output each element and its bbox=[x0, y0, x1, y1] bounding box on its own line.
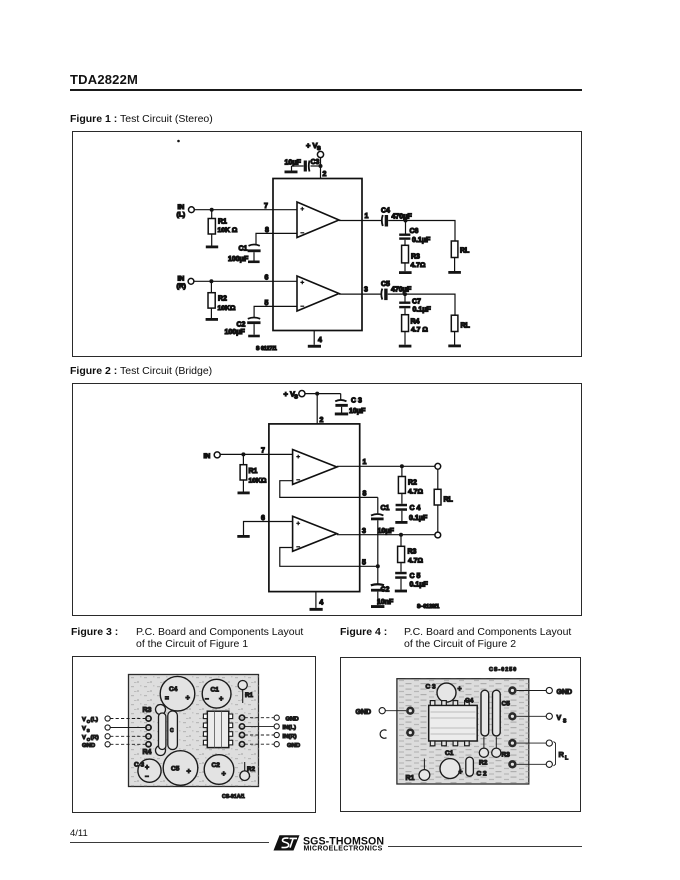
op-amp A2 bbox=[293, 516, 337, 551]
pad hook bbox=[406, 728, 414, 736]
ground for pin 6 bbox=[237, 535, 249, 538]
figure 1 frame bbox=[72, 131, 582, 357]
pad Vs bbox=[508, 712, 516, 720]
capacitor C2 10nF bbox=[371, 566, 394, 606]
resistor R2 footprint bbox=[479, 737, 489, 767]
svg-text:C4: C4 bbox=[169, 686, 178, 693]
svg-text:V: V bbox=[557, 715, 562, 722]
svg-text:C2: C2 bbox=[381, 587, 390, 594]
svg-text:7: 7 bbox=[261, 448, 265, 455]
svg-text:CS-0250: CS-0250 bbox=[489, 667, 517, 673]
pad GND left bbox=[406, 707, 414, 715]
svg-text:V: V bbox=[82, 717, 86, 723]
capacitor C3 10uF bbox=[285, 159, 321, 172]
svg-text:C1: C1 bbox=[211, 687, 220, 694]
svg-text:S: S bbox=[294, 395, 298, 401]
terminal RL bottom bbox=[546, 761, 552, 767]
node input R junction bbox=[209, 279, 213, 283]
pin 4 wire to ground bbox=[313, 331, 315, 345]
svg-text:+: + bbox=[187, 767, 192, 776]
ground for C3 bbox=[335, 413, 348, 416]
wire pin 6 to ground bbox=[244, 522, 293, 536]
svg-text:GND: GND bbox=[356, 709, 372, 716]
svg-text:C1: C1 bbox=[445, 750, 454, 757]
svg-text:470μF: 470μF bbox=[391, 287, 412, 294]
svg-text:S: S bbox=[563, 719, 567, 725]
ground for RL channel 1 bbox=[448, 271, 461, 274]
ST logo symbol bbox=[274, 835, 300, 850]
feedback wire pin 8 bbox=[280, 481, 378, 498]
node input junction bbox=[241, 452, 245, 456]
wire pad to IN(R) bbox=[245, 734, 274, 736]
svg-text:10KΩ: 10KΩ bbox=[249, 478, 267, 485]
pad Vo(R) bbox=[146, 734, 151, 739]
node pin 5 junction bbox=[376, 564, 380, 568]
svg-text:C3: C3 bbox=[311, 159, 320, 166]
svg-text:C 3: C 3 bbox=[426, 684, 437, 691]
svg-text:R2: R2 bbox=[247, 766, 256, 773]
resistor R3 footprint bbox=[143, 705, 166, 715]
svg-text:C5: C5 bbox=[171, 766, 180, 773]
svg-text:+: + bbox=[186, 693, 191, 702]
PCB board figure 4 bbox=[397, 679, 529, 784]
capacitor C5 footprint bbox=[493, 690, 511, 736]
svg-text:CS-01A/1: CS-01A/1 bbox=[222, 794, 245, 800]
resistor R3 4.7ohm bbox=[402, 240, 426, 271]
svg-text:C 3: C 3 bbox=[351, 398, 362, 405]
svg-text:S: S bbox=[317, 146, 321, 152]
wire pin 3 output bbox=[339, 293, 381, 295]
svg-text:C4: C4 bbox=[465, 698, 474, 705]
svg-text:GND: GND bbox=[557, 689, 573, 696]
terminal GND right top bbox=[274, 715, 298, 723]
capacitor C4 footprint bbox=[160, 676, 195, 711]
wire pad to GND right bbox=[517, 690, 547, 692]
resistor R3 footprint bbox=[492, 737, 510, 759]
svg-text:3: 3 bbox=[362, 528, 366, 535]
resistor R3 4.7ohm bbox=[398, 535, 424, 572]
wire pad to Vs bbox=[517, 715, 547, 717]
node output R junction bbox=[403, 292, 407, 296]
svg-text:IN(L): IN(L) bbox=[283, 725, 296, 731]
svg-text:(L): (L) bbox=[91, 717, 99, 723]
supply terminal +Vs bbox=[284, 390, 306, 401]
svg-text:IN: IN bbox=[204, 453, 211, 460]
svg-text:4.7Ω: 4.7Ω bbox=[408, 489, 423, 496]
wire GND left to pad bbox=[110, 743, 146, 745]
load resistor RL channel 2 bbox=[451, 315, 470, 344]
capacitor C6 0.1uF bbox=[399, 221, 431, 245]
supply terminal +Vs bbox=[306, 141, 324, 158]
resistor R1 footprint bbox=[238, 681, 253, 704]
IC U1 DIP-8 footprint bbox=[203, 711, 232, 747]
figure 2 frame bbox=[72, 383, 582, 616]
svg-text:+: + bbox=[222, 769, 227, 778]
svg-text:IN(R): IN(R) bbox=[283, 734, 297, 740]
ground for R1 bbox=[206, 246, 218, 249]
capacitor C1 footprint bbox=[440, 750, 463, 779]
svg-text:1: 1 bbox=[363, 459, 367, 466]
svg-text:C 2: C 2 bbox=[477, 771, 488, 778]
resistor R4 4.7ohm bbox=[402, 308, 429, 344]
svg-text:10μF: 10μF bbox=[285, 160, 302, 167]
wire pin 1 output bbox=[337, 465, 435, 467]
svg-text:100μF: 100μF bbox=[228, 256, 249, 263]
svg-text:R4: R4 bbox=[411, 319, 420, 326]
svg-text:GND: GND bbox=[82, 743, 95, 749]
capacitor C1 100uF bbox=[228, 245, 261, 264]
footer rule right bbox=[388, 846, 582, 847]
ground for pin 4 bbox=[308, 345, 321, 348]
svg-text:C2: C2 bbox=[212, 762, 221, 769]
svg-text:R3: R3 bbox=[408, 549, 417, 556]
ground for R2 bbox=[206, 318, 218, 321]
ground for C3 bbox=[285, 166, 298, 173]
wire pin 8 to C1 bbox=[256, 233, 297, 244]
svg-text:R4: R4 bbox=[143, 749, 152, 756]
svg-text:R1: R1 bbox=[218, 219, 227, 226]
op-amp IC box U1 bbox=[273, 179, 362, 331]
ground for C2 bbox=[248, 335, 260, 338]
terminal RL top bbox=[546, 740, 552, 746]
pad RL bottom bbox=[508, 760, 516, 768]
svg-text:R2: R2 bbox=[408, 480, 417, 487]
caption figure 4 bbox=[340, 626, 387, 638]
svg-text:R2: R2 bbox=[218, 296, 227, 303]
svg-text:C1: C1 bbox=[239, 246, 248, 253]
pad IN(R) bbox=[239, 732, 244, 737]
header rule bbox=[70, 89, 582, 91]
svg-text:(R): (R) bbox=[177, 283, 186, 290]
figure 3 frame bbox=[72, 656, 316, 813]
caption figure 2 bbox=[70, 365, 212, 377]
svg-text:4.7Ω: 4.7Ω bbox=[408, 558, 423, 565]
capacitor C2 100uF bbox=[225, 318, 261, 337]
svg-text:S–8128/1: S–8128/1 bbox=[417, 604, 439, 610]
wire pad to GND bottom bbox=[245, 743, 274, 745]
svg-text:3: 3 bbox=[364, 287, 368, 294]
pad Vs bbox=[146, 725, 151, 730]
wire Vo(L) to pad bbox=[110, 718, 146, 720]
svg-text:C 4: C 4 bbox=[410, 505, 421, 512]
terminal GND left bbox=[356, 708, 386, 716]
node output 2 junction bbox=[399, 533, 403, 537]
capacitor C7 footprint bbox=[168, 711, 178, 750]
resistor R1 footprint bbox=[406, 759, 430, 783]
input terminal IN bbox=[204, 452, 221, 460]
terminal GND right bottom bbox=[274, 742, 300, 749]
svg-text:RL: RL bbox=[461, 323, 471, 330]
svg-text:V: V bbox=[82, 735, 86, 741]
svg-text:10nF: 10nF bbox=[377, 599, 394, 606]
resistor R2 10K bbox=[208, 281, 236, 318]
svg-text:0.1μF: 0.1μF bbox=[409, 515, 428, 522]
svg-text:+ V: + V bbox=[284, 390, 295, 399]
svg-text:+: + bbox=[145, 765, 149, 772]
svg-text:+: + bbox=[458, 686, 462, 693]
capacitor C1 footprint bbox=[202, 679, 231, 708]
wire IN(R) to pin 6 bbox=[194, 280, 297, 282]
svg-text:10μF: 10μF bbox=[349, 408, 366, 415]
pin 4 wire to ground bbox=[315, 592, 317, 608]
svg-text:−: − bbox=[205, 696, 209, 703]
svg-text:C5: C5 bbox=[381, 281, 390, 288]
caption figure 1 bbox=[70, 113, 213, 125]
PCB board figure 3 bbox=[129, 675, 259, 787]
svg-text:L: L bbox=[565, 756, 569, 762]
node input L junction bbox=[210, 208, 214, 212]
ground for R3 bbox=[399, 271, 412, 274]
svg-text:2: 2 bbox=[323, 171, 327, 178]
resistor R2 footprint bbox=[240, 762, 256, 781]
svg-text:C2: C2 bbox=[237, 322, 246, 329]
wire pin 3 output bbox=[337, 534, 435, 536]
svg-text:C 3: C 3 bbox=[134, 762, 145, 769]
svg-text:8: 8 bbox=[363, 491, 367, 498]
svg-text:6: 6 bbox=[261, 515, 265, 522]
svg-text:S: S bbox=[87, 728, 90, 733]
svg-text:0.1μF: 0.1μF bbox=[410, 582, 429, 589]
svg-text:4: 4 bbox=[319, 600, 323, 607]
pad GND left bbox=[146, 742, 151, 747]
svg-text:C 5: C 5 bbox=[410, 573, 421, 580]
pad Vo(L) bbox=[146, 716, 151, 721]
capacitor C3 footprint bbox=[426, 683, 462, 702]
node supply junction bbox=[319, 164, 323, 168]
wire pad to RL top bbox=[517, 742, 547, 744]
load resistor RL channel 1 bbox=[451, 241, 470, 271]
svg-text:6: 6 bbox=[265, 275, 269, 282]
load resistor RL bbox=[434, 469, 453, 532]
capacitor C4 footprint bbox=[465, 690, 489, 736]
svg-text:GND: GND bbox=[287, 743, 300, 749]
svg-text:10μF: 10μF bbox=[378, 528, 395, 535]
pad RL top bbox=[508, 739, 516, 747]
load RL bracket label bbox=[554, 742, 570, 766]
input terminal IN (L) bbox=[177, 204, 195, 219]
ground for pin 4 bbox=[310, 608, 323, 611]
terminal GND left bbox=[82, 742, 110, 749]
wire pad to GND right bbox=[245, 717, 274, 719]
svg-text:C1: C1 bbox=[381, 505, 390, 512]
ground for C2 bbox=[371, 605, 384, 608]
svg-text:RL: RL bbox=[444, 497, 454, 504]
svg-text:C4: C4 bbox=[381, 208, 390, 215]
capacitor C3 footprint bbox=[134, 759, 161, 782]
capacitor C6 footprint bbox=[159, 713, 166, 750]
pad GND right bbox=[508, 686, 516, 694]
input terminal IN (R) bbox=[177, 276, 194, 291]
feedback wire pin 5 bbox=[280, 548, 378, 567]
capacitor C2 footprint bbox=[204, 755, 234, 785]
terminal IN(L) bbox=[274, 724, 296, 731]
svg-text:IN: IN bbox=[178, 276, 185, 283]
svg-text:GND: GND bbox=[286, 717, 299, 723]
svg-text:1: 1 bbox=[365, 213, 369, 220]
wire pad to RL bottom bbox=[517, 763, 547, 765]
wire pin 5 to C2 bbox=[254, 306, 297, 317]
svg-text:+ V: + V bbox=[306, 141, 317, 150]
ground for RL channel 2 bbox=[448, 345, 461, 348]
node supply junction bbox=[315, 392, 319, 396]
wire C4 to RL bbox=[388, 221, 455, 242]
terminal GND right bbox=[546, 687, 572, 696]
terminal IN(R) bbox=[274, 732, 297, 739]
capacitor C5 470uF bbox=[381, 281, 412, 300]
caption figure 3 bbox=[71, 626, 118, 638]
capacitor C4 470uF bbox=[381, 208, 412, 227]
svg-text:R3: R3 bbox=[411, 254, 420, 261]
node output 1 junction bbox=[400, 464, 404, 468]
capacitor C5 footprint bbox=[163, 751, 198, 786]
svg-text:+: + bbox=[459, 769, 463, 776]
terminal Vs bbox=[546, 713, 567, 724]
svg-text:R1: R1 bbox=[406, 775, 415, 782]
capacitor C7 0.1uF bbox=[399, 294, 431, 313]
svg-text:5: 5 bbox=[362, 560, 366, 567]
input hook terminal bbox=[380, 730, 386, 738]
svg-text:2: 2 bbox=[320, 417, 324, 424]
IC U1 DIP-8 footprint bbox=[429, 701, 478, 746]
wire GND left to pad bbox=[385, 710, 406, 712]
svg-text:RL: RL bbox=[460, 248, 470, 255]
terminal Vo(L) bbox=[82, 716, 110, 724]
op-amp IC box U1 bbox=[269, 424, 360, 592]
pad GND right bottom bbox=[239, 742, 244, 747]
ground for C1 bbox=[248, 261, 260, 264]
svg-text:R3: R3 bbox=[143, 707, 152, 714]
svg-text:=: = bbox=[165, 695, 169, 702]
resistor R1 10K bbox=[208, 210, 238, 246]
svg-text:7: 7 bbox=[264, 203, 268, 210]
pad IN(L) bbox=[239, 724, 244, 729]
capacitor C5 0.1uF bbox=[395, 572, 428, 590]
pad GND right bbox=[239, 715, 244, 720]
svg-text:4: 4 bbox=[318, 337, 322, 344]
svg-text:+: + bbox=[219, 694, 224, 703]
output terminal 1 bbox=[435, 463, 441, 469]
resistor R2 4.7ohm bbox=[398, 466, 423, 504]
svg-text:R3: R3 bbox=[502, 752, 511, 759]
node output L junction bbox=[404, 219, 408, 223]
ground for C4 bbox=[395, 521, 407, 524]
capacitor C1 10uF bbox=[371, 497, 395, 566]
ground for R4 bbox=[399, 345, 412, 348]
svg-text:(R): (R) bbox=[91, 735, 99, 741]
wire C5 to RL bbox=[388, 294, 455, 315]
wire Vo(R) to pad bbox=[110, 735, 146, 737]
svg-text:4.7Ω: 4.7Ω bbox=[411, 262, 426, 269]
wire junction to pin 2 bbox=[316, 394, 318, 424]
figure 4 frame bbox=[340, 657, 581, 812]
output terminal 2 bbox=[435, 532, 441, 538]
svg-text:470μF: 470μF bbox=[392, 214, 413, 221]
ground for C5 bbox=[395, 590, 407, 593]
svg-text:V: V bbox=[82, 726, 86, 732]
svg-text:C: C bbox=[170, 728, 174, 734]
svg-text:10KΩ: 10KΩ bbox=[218, 305, 236, 312]
capacitor C4 0.1uF bbox=[396, 504, 428, 522]
op-amp A2 bbox=[297, 276, 339, 311]
header title TDA2822M bbox=[70, 72, 138, 87]
svg-text:(L): (L) bbox=[177, 212, 186, 219]
svg-text:0.1μF: 0.1μF bbox=[412, 237, 431, 244]
svg-text:C7: C7 bbox=[412, 299, 421, 306]
terminal Vs bbox=[82, 725, 110, 733]
capacitor C2 footprint bbox=[466, 757, 487, 777]
svg-text:100μF: 100μF bbox=[225, 329, 246, 336]
stray print dot bbox=[177, 140, 180, 143]
svg-text:R1: R1 bbox=[249, 468, 258, 475]
op-amp A1 bbox=[293, 450, 337, 485]
op-amp A1 bbox=[297, 202, 339, 238]
wire Vs to pad bbox=[110, 727, 146, 729]
wire pin 1 output bbox=[339, 220, 381, 222]
svg-text:R1: R1 bbox=[245, 692, 254, 699]
capacitor C3 10uF bbox=[335, 394, 366, 415]
resistor R1 10K bbox=[240, 454, 267, 491]
footer page number 4/11 bbox=[70, 828, 88, 839]
wire +Vs to C3 bbox=[305, 393, 341, 395]
resistor R4 footprint bbox=[143, 746, 166, 757]
svg-text:R2: R2 bbox=[479, 760, 488, 767]
svg-text:R: R bbox=[559, 750, 565, 759]
ground for R1 bbox=[238, 492, 250, 495]
svg-text:10K Ω: 10K Ω bbox=[218, 227, 238, 234]
svg-text:S 6127/1: S 6127/1 bbox=[256, 346, 277, 352]
terminal Vo(R) bbox=[82, 734, 110, 742]
footer rule left bbox=[70, 842, 269, 843]
svg-text:IN: IN bbox=[178, 204, 185, 211]
svg-text:C6: C6 bbox=[410, 228, 419, 235]
wire pad to IN(L) bbox=[245, 725, 274, 727]
svg-text:4.7 Ω: 4.7 Ω bbox=[411, 327, 428, 334]
wire IN(L) to pin 7 bbox=[194, 209, 297, 211]
svg-text:−: − bbox=[145, 774, 149, 781]
svg-text:0.1μF: 0.1μF bbox=[413, 307, 432, 314]
wire IN to pin 7 bbox=[220, 453, 292, 455]
SGS-THOMSON logo bbox=[272, 832, 384, 856]
wire +Vs to pin 2 bbox=[320, 158, 322, 179]
svg-text:C5: C5 bbox=[502, 701, 511, 708]
svg-text:MICROELECTRONICS: MICROELECTRONICS bbox=[304, 846, 383, 853]
